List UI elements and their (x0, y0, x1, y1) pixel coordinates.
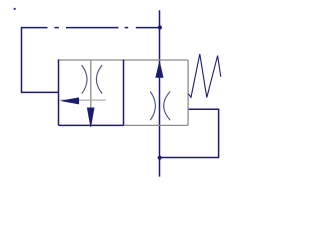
wire: spring-side return line (160, 109, 219, 157)
node junction top (158, 25, 162, 29)
throttle arcs right box (150, 91, 170, 120)
node marker dot top-left (14, 8, 16, 10)
arrow down (navy) in left box (87, 108, 94, 127)
left box gray flow path horizontal (59, 99, 106, 101)
valve left position box (navy edges: left, bottom, divider) (59, 59, 124, 125)
arrow left (navy) in left box (62, 98, 79, 104)
node junction bottom (158, 156, 162, 160)
arrow up (navy) in right box (156, 62, 163, 78)
left box gray flow path vertical (90, 60, 92, 107)
wire: main vertical line (159, 10, 161, 176)
wire: pilot left vertical and into valve port (22, 27, 59, 93)
pilot line (dash-dot) top horizontal (22, 27, 161, 29)
throttle arcs left box (82, 65, 103, 94)
spring zigzag (188, 54, 220, 98)
valve body gray outline (top, right, bottom-right) (59, 60, 189, 125)
